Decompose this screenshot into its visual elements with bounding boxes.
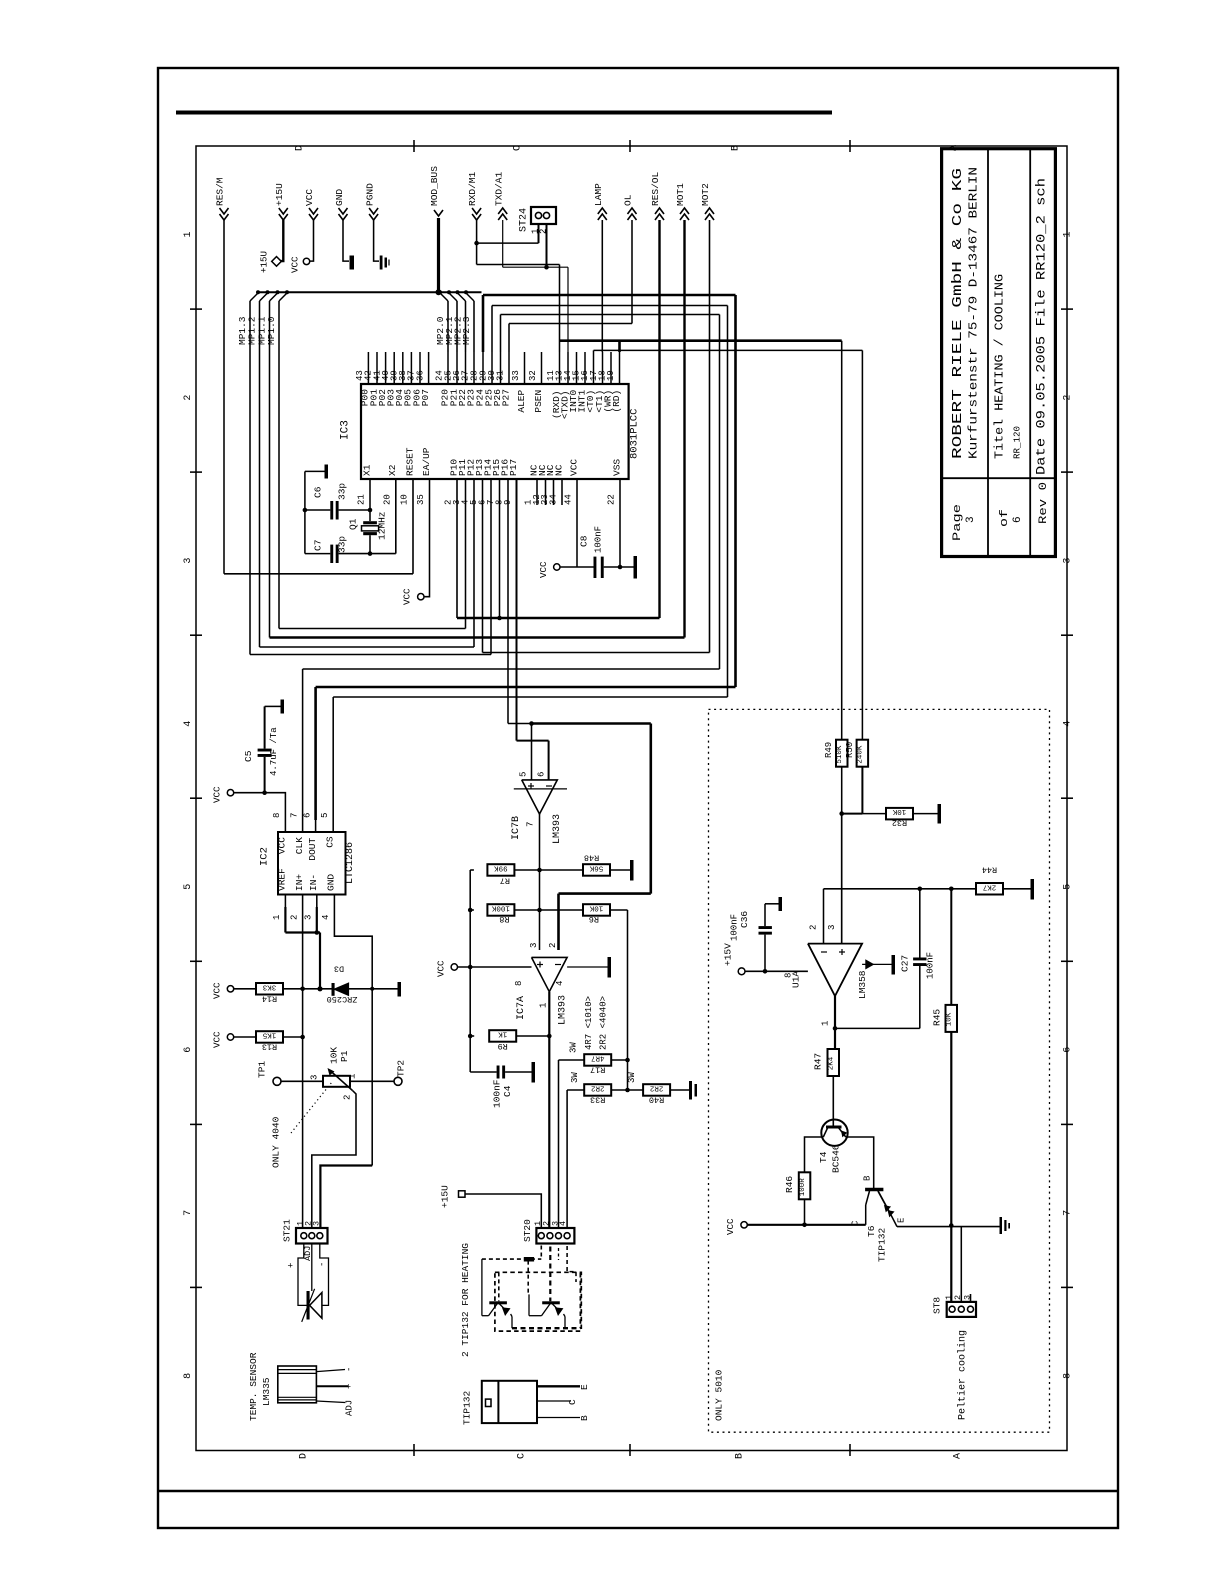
wire P26 row <box>501 314 720 316</box>
wire VCC to IC2 pin8 <box>234 793 286 820</box>
dashed wire heat right edge <box>579 1273 581 1328</box>
svg-text:ST8: ST8 <box>932 1297 943 1314</box>
wire R50 bottom <box>861 767 863 814</box>
IC3 NC pin stub <box>545 479 547 505</box>
svg-text:4: 4 <box>555 981 565 986</box>
svg-text:1: 1 <box>1062 231 1073 237</box>
wire C6 right <box>339 509 370 511</box>
svg-text:TXD/A1: TXD/A1 <box>493 171 504 206</box>
svg-text:+: + <box>345 1384 355 1389</box>
svg-text:IC3: IC3 <box>340 420 352 440</box>
svg-text:100nF: 100nF <box>926 952 936 979</box>
wire RXD/M1 vertical <box>476 220 478 265</box>
capacitor C36 <box>764 904 766 926</box>
junction R17/R6 <box>625 1058 630 1063</box>
svg-text:12MHz: 12MHz <box>377 511 388 540</box>
wire row MP1.0-P11 <box>279 628 466 630</box>
svg-text:R48: R48 <box>584 853 599 863</box>
wire ST21 pin2 down <box>311 1244 313 1292</box>
svg-text:3W: 3W <box>570 1072 580 1083</box>
top rule line <box>176 111 832 115</box>
wire row MOT2 <box>483 652 710 654</box>
ground symbol IC7A <box>608 957 612 978</box>
wire R7 left <box>470 869 474 871</box>
wire P1 wiper to ST21 <box>312 1091 356 1229</box>
wire IC7A pin2 <box>557 894 560 950</box>
svg-text:B: B <box>734 1453 745 1459</box>
svg-text:3: 3 <box>183 558 194 564</box>
wire R17 left <box>559 1059 585 1061</box>
ground symbol R40 <box>689 1081 692 1100</box>
svg-text:3: 3 <box>827 925 837 930</box>
frame tick left <box>190 1286 202 1288</box>
power symbol VCC (IC2) <box>227 790 233 796</box>
junction X1 node <box>368 508 373 513</box>
package TIP132 hole <box>486 1399 492 1406</box>
title block divider 2 <box>1029 149 1031 557</box>
U1A plus sign <box>839 951 845 953</box>
wire TXD drop to pin 13 <box>567 267 569 352</box>
resistor R6 <box>583 904 610 916</box>
wire T6 emitter row <box>897 1226 1000 1228</box>
svg-text:ST24: ST24 <box>518 208 529 232</box>
svg-text:B: B <box>730 145 741 151</box>
wire R49 bottom <box>841 767 843 944</box>
bus entry MP2.3 <box>466 293 474 301</box>
svg-text:1: 1 <box>183 231 194 237</box>
wire R13 to IN+ <box>283 1036 303 1038</box>
svg-text:19: 19 <box>606 370 616 381</box>
svg-text:NC: NC <box>553 464 564 476</box>
svg-text:VCC: VCC <box>290 256 301 273</box>
wire R47 to T4 <box>832 1076 834 1127</box>
wire Q-A emitter down <box>511 1317 513 1329</box>
IC3 pin 24 (P20) stub <box>447 352 449 384</box>
wire C4 right <box>505 1071 531 1073</box>
IC3 NC pin stub <box>561 479 563 505</box>
dotted leader ONLY 4040 <box>291 1082 332 1133</box>
svg-text:VCC: VCC <box>212 1031 223 1048</box>
svg-text:44: 44 <box>564 494 574 505</box>
bus entry MP1.1 <box>270 293 278 301</box>
wire U1A pin2 <box>823 889 825 944</box>
wire R6 right <box>610 909 628 911</box>
svg-text:1K: 1K <box>498 1030 508 1038</box>
IC3 pin 42 (P01) stub <box>376 352 378 384</box>
svg-text:EA/UP: EA/UP <box>421 447 432 476</box>
wire R49 top <box>841 341 843 740</box>
svg-text:22: 22 <box>607 494 617 505</box>
wire R9 left <box>470 1035 474 1037</box>
svg-text:P07: P07 <box>420 389 431 406</box>
svg-text:GND: GND <box>334 189 345 206</box>
U1A minus sign <box>821 951 827 953</box>
wire row RES/OL <box>457 617 660 619</box>
IC3 pin 15 (INT1) stub <box>584 352 586 384</box>
svg-text:MOT1: MOT1 <box>675 183 686 206</box>
svg-text:R14: R14 <box>262 994 277 1004</box>
svg-text:+15V: +15V <box>723 943 734 966</box>
wire C7 right <box>339 553 396 555</box>
svg-text:100nF: 100nF <box>492 1079 503 1108</box>
power symbol VCC circle <box>303 258 309 264</box>
wire C7 left <box>305 553 330 555</box>
wire zener node to ST21 pin3 <box>320 1166 372 1229</box>
diode LM335 sensor <box>307 1291 310 1320</box>
connector ST21 <box>296 1228 328 1244</box>
frame tick right <box>1061 308 1073 310</box>
junction R45 top <box>949 887 954 892</box>
wire D3 to ground <box>348 988 397 990</box>
bus entry MP2.2 <box>458 293 466 301</box>
wire P27 row to OL <box>509 323 632 325</box>
svg-text:B: B <box>863 1175 873 1181</box>
arrow MOT1 <box>680 208 689 214</box>
wire R50 top <box>861 350 863 739</box>
wire U1A output <box>834 996 836 1028</box>
junction IN+/R13 <box>300 1035 305 1040</box>
svg-text:2K7: 2K7 <box>983 882 997 890</box>
svg-text:4: 4 <box>1062 721 1073 727</box>
power symbol VCC (R14) <box>227 986 233 992</box>
resistor R13 <box>256 1031 283 1043</box>
wire DOUT up <box>314 687 317 820</box>
svg-text:CS: CS <box>325 836 336 848</box>
frame tick left <box>190 634 202 636</box>
svg-text:10K: 10K <box>589 904 603 912</box>
wire row MOT1 <box>270 636 685 638</box>
wire VCC to R13 <box>234 1036 256 1038</box>
wire X1 <box>369 479 371 510</box>
svg-text:D: D <box>294 145 305 151</box>
resistor R7 <box>487 864 514 876</box>
svg-text:TIP132: TIP132 <box>462 1390 473 1425</box>
svg-text:R17: R17 <box>590 1065 605 1075</box>
IC7B plus sign <box>528 785 534 787</box>
wire MP2.2 vertical <box>465 301 467 352</box>
IC3 pin 26 (P22) stub <box>465 352 467 384</box>
transistor T6 base bar <box>865 1188 883 1192</box>
wire R8 left <box>470 909 474 911</box>
frame tick right <box>1061 634 1073 636</box>
svg-text:RXD/M1: RXD/M1 <box>467 171 478 206</box>
wire R14 to D3 <box>283 988 332 990</box>
svg-text:P27: P27 <box>500 389 511 406</box>
wire feedback row R44 <box>824 888 976 890</box>
svg-text:U1A: U1A <box>791 971 802 988</box>
svg-text:C: C <box>516 1453 527 1459</box>
wire TXD/A1 vertical <box>502 220 504 267</box>
wire divider to R32 <box>862 813 886 815</box>
svg-text:R40: R40 <box>649 1095 664 1105</box>
svg-text:T6: T6 <box>866 1225 877 1237</box>
IC7A minus sign <box>555 964 561 966</box>
wire R32 to ground <box>913 813 938 815</box>
junction C5/VCC <box>262 790 267 795</box>
svg-text:VCC: VCC <box>212 982 223 999</box>
svg-text:8: 8 <box>272 813 282 818</box>
svg-text:RR_120: RR_120 <box>1013 426 1023 459</box>
power symbol VCC (C8) <box>554 564 560 570</box>
bus entry MP1.2 <box>260 293 268 301</box>
capacitor C7 <box>330 545 333 563</box>
wire OL <box>631 220 633 324</box>
svg-text:Page: Page <box>952 504 964 541</box>
resistor R50 <box>857 740 869 767</box>
svg-text:36: 36 <box>415 370 425 381</box>
frame tick bottom <box>849 1444 851 1456</box>
IC2 pin 1 stub <box>284 895 286 908</box>
svg-text:ST20: ST20 <box>522 1219 533 1242</box>
wire MP1.2 vertical <box>259 301 261 647</box>
svg-text:R49: R49 <box>824 742 834 758</box>
schematic frame <box>196 146 1067 1451</box>
junction MOD_BUS/bus <box>436 289 442 295</box>
svg-text:R33: R33 <box>590 1095 605 1105</box>
capacitor C8 <box>594 557 597 578</box>
wire row CLK <box>303 668 720 670</box>
frame tick right <box>1061 960 1073 962</box>
junction IC7B pin5 node <box>529 721 534 726</box>
svg-text:MOT2: MOT2 <box>700 183 711 206</box>
wire ST20 pin4 up <box>566 1090 568 1228</box>
IC7A power line right <box>567 966 607 968</box>
test point TP1 <box>273 1077 281 1085</box>
power symbol +15V <box>738 968 745 975</box>
wire MP1.1 vertical <box>269 301 271 638</box>
svg-text:10K: 10K <box>329 1047 340 1064</box>
frame tick top <box>849 140 851 152</box>
svg-text:Rev 0: Rev 0 <box>1038 482 1050 524</box>
IC3 pin 13 (<TXD)) stub <box>567 352 569 384</box>
svg-text:1: 1 <box>539 1003 549 1008</box>
wire VSS pin 22 <box>619 479 621 567</box>
resistor R33 <box>584 1084 611 1096</box>
wire P16 to IC7B <box>507 479 509 724</box>
svg-text:VREF: VREF <box>277 868 288 891</box>
wire crystal ground vertical <box>304 471 306 553</box>
svg-text:33p: 33p <box>337 483 348 500</box>
wire VCC pin 44 <box>576 479 578 567</box>
svg-text:R50: R50 <box>845 742 855 758</box>
svg-text:10: 10 <box>400 494 410 505</box>
svg-text:31: 31 <box>496 370 506 381</box>
svg-text:E: E <box>897 1218 907 1223</box>
capacitor C5 <box>264 706 266 748</box>
wire P14 stub <box>490 479 492 655</box>
wire CS up <box>332 697 334 820</box>
transistor heating Q-A <box>489 1301 507 1304</box>
LM335 pin + <box>316 1385 348 1387</box>
junction ref node <box>317 986 322 991</box>
wire Q-B collector link <box>528 1294 530 1315</box>
bus entry MP1.0 <box>279 293 287 301</box>
svg-text:+: + <box>287 1263 297 1268</box>
svg-text:6: 6 <box>183 1047 194 1053</box>
dashed wire ST20 pin3 stub <box>558 1248 560 1260</box>
junction R33/R6 <box>625 1088 630 1093</box>
IC3 pin 30 (P26) stub <box>500 352 502 384</box>
svg-text:Q1: Q1 <box>348 518 359 530</box>
svg-text:+15U: +15U <box>440 1185 451 1208</box>
wire R40 to ground <box>670 1089 689 1091</box>
wire P13 stub <box>482 479 484 653</box>
bus entry MP1.3 <box>250 293 258 301</box>
transistor T4 <box>821 1120 847 1146</box>
ADC IC2 body <box>278 832 346 895</box>
TIP132 pin C <box>537 1400 571 1402</box>
svg-text:3: 3 <box>304 915 314 920</box>
wire ST20 pin3 up <box>558 1060 560 1228</box>
svg-text:5: 5 <box>183 884 194 890</box>
svg-text:R44: R44 <box>982 865 997 875</box>
svg-text:-: - <box>318 1262 328 1267</box>
wire R33 to R40 <box>611 1089 643 1091</box>
wire MP1.3 vertical <box>249 301 251 655</box>
svg-text:PGND: PGND <box>364 183 375 206</box>
svg-text:VCC: VCC <box>538 561 549 578</box>
wire R17 right <box>611 1059 627 1061</box>
wire hysteresis vertical <box>469 870 471 1072</box>
svg-text:5: 5 <box>1062 884 1073 890</box>
potentiometer P1 <box>323 1076 350 1087</box>
svg-text:TP1: TP1 <box>257 1061 268 1078</box>
ground symbol C4 <box>532 1062 536 1083</box>
svg-text:1: 1 <box>272 915 282 920</box>
svg-text:of: of <box>999 509 1011 527</box>
wire feedback vertical <box>649 724 652 894</box>
test point TP2 <box>394 1077 402 1085</box>
wire IN+ down <box>302 907 304 1228</box>
wire T6 emitter <box>878 1191 891 1214</box>
svg-text:7: 7 <box>289 813 299 818</box>
IC3 pin 18 ((WR)) stub <box>610 352 612 384</box>
svg-text:4R7: 4R7 <box>591 1054 605 1062</box>
svg-text:4: 4 <box>183 721 194 727</box>
svg-text:7: 7 <box>526 822 536 827</box>
svg-text:10K: 10K <box>892 807 906 815</box>
svg-text:10K: 10K <box>946 1012 954 1026</box>
svg-text:R47: R47 <box>813 1053 824 1070</box>
svg-text:E: E <box>579 1384 590 1390</box>
transistor heating Q-B <box>542 1301 560 1304</box>
svg-text:C6: C6 <box>313 486 324 498</box>
IC3 pin 16 (<T0)) stub <box>593 352 595 384</box>
svg-text:TP2: TP2 <box>396 1060 407 1077</box>
wire VCC row to C8 <box>560 566 594 568</box>
comparator IC7A <box>532 957 568 991</box>
svg-text:ONLY 4040: ONLY 4040 <box>271 1116 282 1168</box>
svg-text:RESET: RESET <box>404 447 415 476</box>
svg-text:DOUT: DOUT <box>307 837 318 860</box>
wire VCC row T6 <box>747 1224 865 1226</box>
IC2 pin 4 stub <box>333 895 335 908</box>
wire P17 to IC7B <box>516 479 518 741</box>
svg-text:CLK: CLK <box>294 837 305 854</box>
wire C4 left <box>470 1071 496 1073</box>
svg-text:3: 3 <box>1062 558 1073 564</box>
svg-text:B: B <box>579 1415 590 1421</box>
junction RXD/ST24 <box>474 241 479 246</box>
resistor R14 <box>256 983 283 995</box>
op-amp U1A <box>808 944 862 996</box>
bus wire MOD_BUS <box>437 218 440 292</box>
frame tick right <box>1061 471 1073 473</box>
dashed wire Q-B emitter <box>564 1317 566 1329</box>
power symbol VCC (IC7A) <box>451 964 457 970</box>
svg-text:Date 09.05.2005 File RR120_2: Date 09.05.2005 File RR120_2 sch <box>1035 178 1049 475</box>
wire P1 pin1 to TP2 <box>350 1080 394 1082</box>
junction TXD/ST24 <box>544 265 549 270</box>
wire RES/M to RESET <box>224 573 413 575</box>
frame tick right <box>1061 1123 1073 1125</box>
svg-text:-: - <box>345 1367 355 1372</box>
wire heat collector1 <box>481 1259 483 1316</box>
svg-text:LAMP: LAMP <box>593 183 604 206</box>
svg-text:2: 2 <box>1062 395 1073 401</box>
bus entry MP2.0 <box>440 293 448 301</box>
wire R8 right <box>514 909 583 911</box>
wire ST21 pin1 down <box>298 1244 307 1306</box>
bus wire <box>257 291 481 293</box>
svg-text:3W: 3W <box>569 1042 579 1053</box>
svg-text:2: 2 <box>289 915 299 920</box>
svg-text:VCC: VCC <box>402 588 413 605</box>
junction R9 node <box>547 1034 552 1039</box>
wire R45 to ST8 <box>950 1032 952 1302</box>
wire R9 right <box>517 1035 550 1037</box>
junction R46/VCC <box>802 1223 807 1228</box>
wire R46 bottom <box>804 1200 806 1225</box>
wire +15U <box>281 220 284 261</box>
ground symbol R32 <box>938 804 942 824</box>
ground symbol R48 <box>630 860 634 881</box>
wire R50 join <box>842 813 863 815</box>
dashed wire Q-A base <box>498 1272 500 1301</box>
arrow MOT2 <box>705 208 714 214</box>
frame tick left <box>190 471 202 473</box>
arrow VCC <box>309 208 318 214</box>
svg-text:7: 7 <box>183 1210 194 1216</box>
svg-text:C: C <box>851 1220 861 1226</box>
svg-text:C: C <box>567 1399 578 1405</box>
svg-text:ROBERT RIELE GmbH & Co KG: ROBERT RIELE GmbH & Co KG <box>951 168 966 459</box>
IC3 pin 11 ((RXD)) stub <box>559 352 561 384</box>
wire ST24 pin1 <box>538 224 540 243</box>
svg-text:4: 4 <box>321 915 331 920</box>
svg-text:TEMP. SENSOR: TEMP. SENSOR <box>248 1352 259 1421</box>
wire row MP1.2-P12 <box>260 646 475 648</box>
svg-text:C5: C5 <box>243 750 254 762</box>
junction R8 node <box>537 908 542 913</box>
svg-text:D: D <box>298 1453 309 1459</box>
wire +15V row <box>745 970 808 972</box>
wire MP1.0 vertical <box>278 301 280 629</box>
IC2 pin 8 stub <box>284 820 286 832</box>
IC3 pin 43 (P00) stub <box>367 352 369 384</box>
frame tick left <box>190 960 202 962</box>
svg-text:2R2 <4040>: 2R2 <4040> <box>599 996 609 1050</box>
svg-text:100R: 100R <box>799 1178 807 1197</box>
wire MP2.3 vertical <box>473 301 475 352</box>
power symbol +15U (ST20) <box>459 1191 466 1197</box>
LM335 pin ADJ <box>316 1401 345 1403</box>
outer page border <box>158 68 1118 1528</box>
wire VCC to IC7A <box>458 966 532 968</box>
IC3 NC pin stub <box>536 479 538 505</box>
ground symbol PGND bars <box>380 256 383 270</box>
wire P11 stub <box>465 479 467 629</box>
